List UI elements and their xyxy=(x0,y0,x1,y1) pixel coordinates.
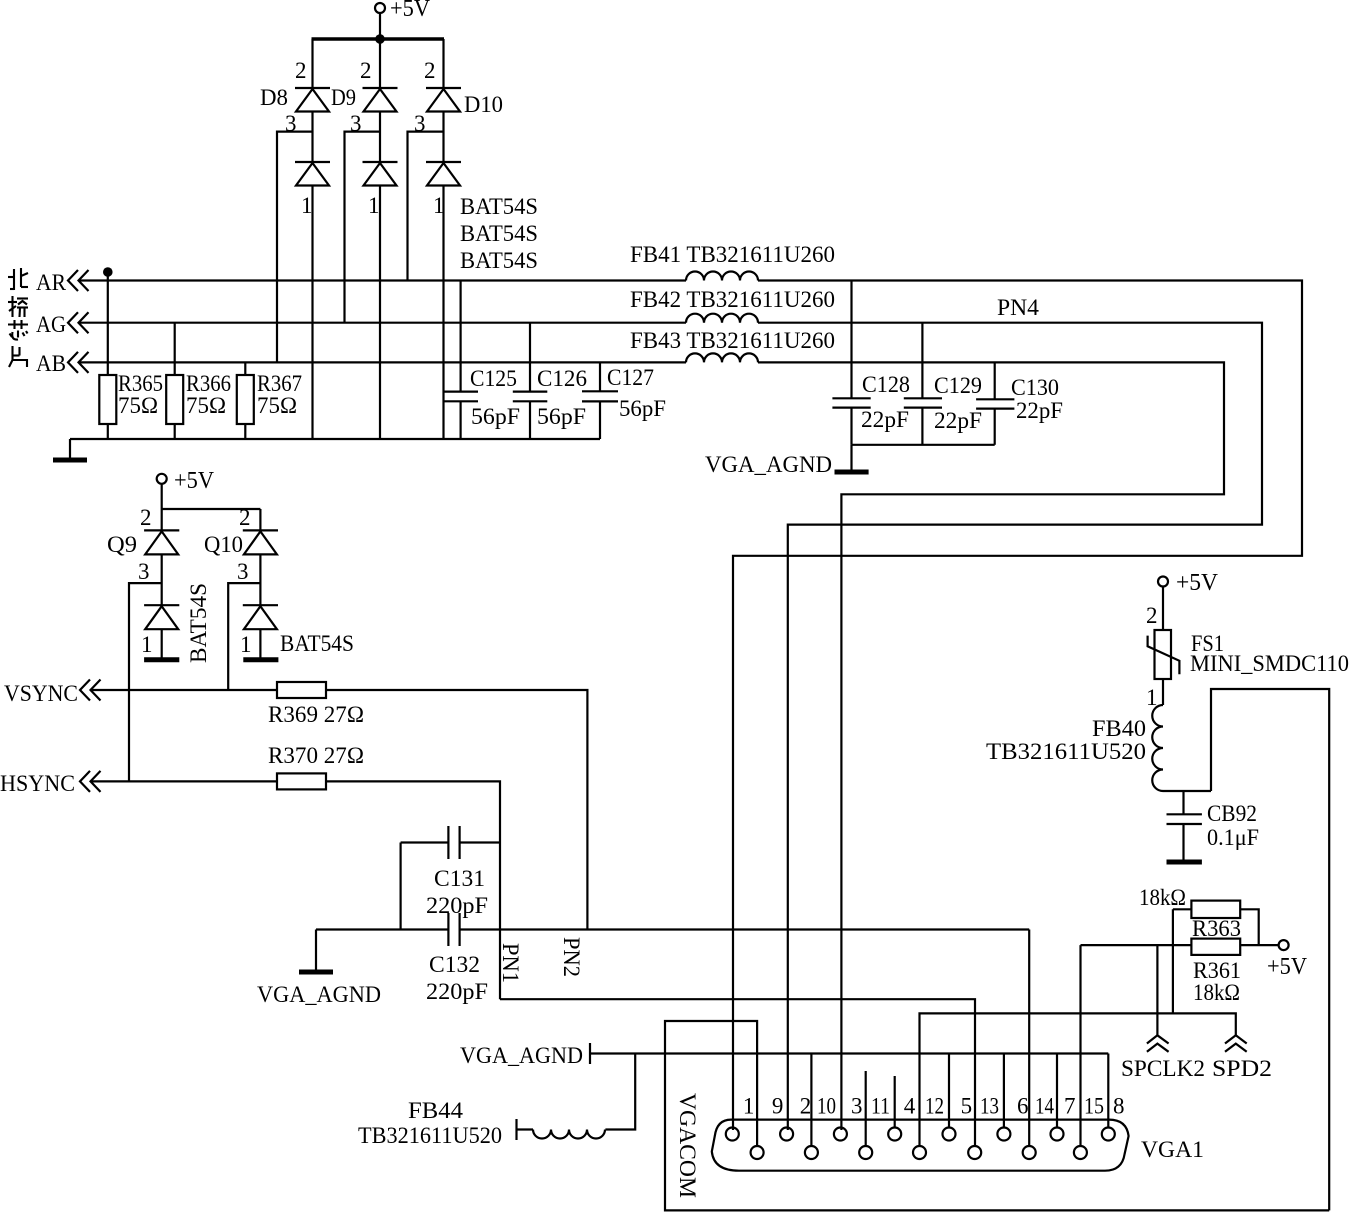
svg-text:56pF: 56pF xyxy=(619,396,666,421)
svg-text:BAT54S: BAT54S xyxy=(460,221,538,246)
svg-text:1: 1 xyxy=(240,632,252,657)
svg-text:PN2: PN2 xyxy=(559,937,584,977)
svg-text:2: 2 xyxy=(295,58,307,83)
svg-text:1: 1 xyxy=(743,1094,755,1119)
svg-text:22pF: 22pF xyxy=(861,407,909,432)
node HSYNC port xyxy=(0,771,101,796)
svg-text:3: 3 xyxy=(237,559,249,584)
svg-text:2: 2 xyxy=(424,58,436,83)
capacitor C131 xyxy=(401,826,500,918)
svg-text:220pF: 220pF xyxy=(426,979,488,1004)
svg-text:+5V: +5V xyxy=(1176,570,1219,596)
svg-text:MINI_SMDC110: MINI_SMDC110 xyxy=(1190,651,1349,676)
svg-text:R370 27Ω: R370 27Ω xyxy=(268,743,364,768)
pin 13 circle xyxy=(968,1146,981,1159)
svg-text:C132: C132 xyxy=(429,952,480,977)
svg-text:BAT54S: BAT54S xyxy=(186,583,211,663)
svg-text:75Ω: 75Ω xyxy=(257,393,297,418)
svg-text:FB41 TB321611U260: FB41 TB321611U260 xyxy=(630,242,835,267)
capacitor C130 xyxy=(976,375,1063,423)
diode D8 (top half, BAT54S) xyxy=(295,88,330,112)
inductor FB44 xyxy=(358,1098,605,1148)
wire pin8 drop (row end) xyxy=(1107,1054,1109,1128)
svg-text:1: 1 xyxy=(301,193,313,218)
wire AG to C129 xyxy=(921,323,923,399)
wire pin6 drop xyxy=(1003,1054,1005,1128)
wire caps bottom row xyxy=(852,444,995,446)
capacitor C132 xyxy=(426,913,488,1004)
svg-text:0.1μF: 0.1μF xyxy=(1207,825,1259,850)
wire FB44 riser xyxy=(605,1054,635,1130)
wire FB40 bottom node xyxy=(1163,790,1211,792)
wire AB to R367 xyxy=(244,362,246,375)
svg-text:220pF: 220pF xyxy=(426,893,488,918)
svg-text:C126: C126 xyxy=(537,366,587,391)
pin 2 circle xyxy=(780,1128,793,1141)
svg-text:HSYNC: HSYNC xyxy=(0,771,75,796)
wire HSYNC to R370 xyxy=(91,780,277,782)
diode D8 (lower half) xyxy=(295,162,330,186)
wire R361 to +5V terminal xyxy=(1240,944,1279,946)
svg-text:SPCLK2: SPCLK2 xyxy=(1121,1056,1205,1081)
resistor R366 xyxy=(166,371,231,424)
wire Q10 pin3 jog to VSYNC xyxy=(228,583,260,690)
svg-text:VGA_AGND: VGA_AGND xyxy=(257,982,381,1007)
inductor FB41 xyxy=(630,242,835,281)
svg-text:FB44: FB44 xyxy=(408,1098,464,1123)
wire D8 pin3 jog xyxy=(277,132,313,363)
wire Q10 mid xyxy=(259,554,261,605)
ground bar CB92 xyxy=(1167,860,1202,865)
node SPD2 port (up arrow) xyxy=(1212,1035,1272,1081)
svg-text:3: 3 xyxy=(138,559,150,584)
power +5V terminal (FS1) xyxy=(1158,570,1219,596)
fuse FS1 MINI_SMDC110 xyxy=(1148,630,1349,679)
wire +5V hook to VGA box xyxy=(1211,689,1329,1210)
capacitor CB92 xyxy=(1167,801,1260,850)
wire D9 mid xyxy=(379,112,381,163)
svg-text:+5V: +5V xyxy=(390,0,431,22)
svg-text:D10: D10 xyxy=(464,92,503,117)
svg-text:Q9: Q9 xyxy=(107,532,137,557)
svg-text:SPD2: SPD2 xyxy=(1212,1056,1272,1081)
svg-text:D8: D8 xyxy=(260,85,288,110)
svg-text:75Ω: 75Ω xyxy=(186,393,226,418)
svg-text:11: 11 xyxy=(871,1094,890,1119)
svg-text:C127: C127 xyxy=(607,365,654,390)
wire AB hook to VGA pin3 xyxy=(758,362,1224,1130)
svg-text:TB321611U520: TB321611U520 xyxy=(986,739,1146,764)
svg-text:1: 1 xyxy=(433,193,445,218)
svg-text:4: 4 xyxy=(904,1094,916,1119)
svg-text:VGACOM: VGACOM xyxy=(675,1093,700,1198)
connector VGA1 D-shell outline xyxy=(712,1120,1129,1171)
svg-text:56pF: 56pF xyxy=(537,404,586,429)
pin 9 circle xyxy=(751,1146,764,1159)
svg-text:3: 3 xyxy=(350,111,362,136)
wire R363 right to +5V net xyxy=(1240,909,1259,945)
svg-text:AB: AB xyxy=(36,351,66,376)
node VSYNC port xyxy=(4,680,101,707)
svg-text:56pF: 56pF xyxy=(471,404,520,429)
wire AR hook to VGA pin1 xyxy=(733,281,1302,1131)
pin 15 circle xyxy=(1074,1146,1087,1159)
wire Q10 bottom xyxy=(259,629,261,658)
inductor FB40 xyxy=(986,705,1163,791)
wire AR line (left of FB41) xyxy=(79,279,686,281)
svg-text:15: 15 xyxy=(1084,1094,1104,1119)
node AR port xyxy=(36,270,89,295)
diode Q10 (lower half) xyxy=(243,605,278,629)
wire SPCLK2/pin15 row xyxy=(1081,944,1192,946)
wire pin4 stub xyxy=(894,1076,896,1128)
svg-text:1: 1 xyxy=(1146,685,1158,710)
ground VGA_AGND (caps) xyxy=(705,445,869,477)
diode Q9 (lower half) xyxy=(144,605,179,629)
svg-text:1: 1 xyxy=(141,632,153,657)
wire C128 to bottom row xyxy=(850,408,852,445)
pin 4 circle xyxy=(888,1128,901,1141)
svg-text:C125: C125 xyxy=(470,366,517,391)
svg-text:2: 2 xyxy=(800,1094,812,1119)
wire D8 column top xyxy=(311,39,313,88)
resistor R370 xyxy=(268,743,364,789)
svg-text:8: 8 xyxy=(1113,1094,1125,1119)
pin 1 circle xyxy=(726,1128,739,1141)
pin 8 circle xyxy=(1102,1128,1115,1141)
wire D9 column top xyxy=(379,39,381,88)
svg-text:AR: AR xyxy=(36,270,67,295)
wire top bus xyxy=(312,37,445,40)
resistor R361 xyxy=(1191,939,1241,1005)
diode Q9 (top half, BAT54S) xyxy=(144,530,179,554)
svg-text:FB42 TB321611U260: FB42 TB321611U260 xyxy=(630,287,835,312)
wire AB to C127 xyxy=(599,362,601,391)
pin 6 circle xyxy=(997,1128,1010,1141)
svg-text:1: 1 xyxy=(368,193,380,218)
pin 12 circle xyxy=(913,1146,926,1159)
wire C127 to rail end xyxy=(599,401,601,439)
pin 5 circle xyxy=(943,1128,956,1141)
capacitor C128 xyxy=(832,372,910,432)
wire AR to R365 xyxy=(107,274,109,375)
diode D10 (top half, BAT54S) xyxy=(426,88,461,112)
svg-text:C131: C131 xyxy=(434,866,485,891)
pin 10 circle xyxy=(805,1146,818,1159)
svg-text:18kΩ: 18kΩ xyxy=(1139,885,1186,910)
svg-text:10: 10 xyxy=(817,1094,836,1119)
wire AG hook to VGA pin2 xyxy=(758,323,1262,1130)
wire AG to C126 xyxy=(529,323,531,392)
wire SPCLK2 drop xyxy=(1156,945,1158,1036)
terminal bar Q10 pin1 xyxy=(243,657,278,662)
inductor FB43 xyxy=(630,328,835,362)
power +5V terminal (mid) xyxy=(157,468,215,494)
wire FS1 to FB40 xyxy=(1162,679,1164,705)
svg-text:Q10: Q10 xyxy=(204,532,243,557)
svg-text:22pF: 22pF xyxy=(1016,398,1063,423)
svg-text:22pF: 22pF xyxy=(934,408,982,433)
wire +5V to bus xyxy=(379,13,381,39)
wire C131 left down to AGND row xyxy=(400,843,402,930)
wire Q10 column top xyxy=(259,509,261,530)
wire pin11 stub xyxy=(865,1071,867,1146)
ground VGA_AGND (C132) xyxy=(257,930,381,1008)
svg-text:BAT54S: BAT54S xyxy=(460,248,538,273)
svg-text:6: 6 xyxy=(1017,1094,1029,1119)
wire +5V down to Q9 xyxy=(161,484,163,531)
resistor R367 xyxy=(237,371,302,424)
svg-text:R363: R363 xyxy=(1192,916,1241,941)
svg-text:14: 14 xyxy=(1035,1094,1054,1119)
wire D9 pin3 jog xyxy=(345,132,381,323)
pin 3 circle xyxy=(834,1128,847,1141)
node SPCLK2 port (up arrow) xyxy=(1121,1035,1205,1081)
svg-text:VGA_AGND: VGA_AGND xyxy=(460,1043,583,1068)
wire Q9 pin3 jog to HSYNC xyxy=(129,583,162,781)
wire R366 to rail xyxy=(174,424,176,439)
wire AG line (left of FB42) xyxy=(79,322,686,324)
svg-text:5: 5 xyxy=(961,1094,973,1119)
wire R363 left leg to SPD2 row xyxy=(1172,909,1174,1013)
inductor FB42 xyxy=(630,287,835,323)
svg-text:PN4: PN4 xyxy=(997,295,1040,320)
wire D8 mid xyxy=(311,112,313,163)
wire D8 column to ground rail xyxy=(311,186,313,440)
wire pin10 drop xyxy=(810,1054,812,1147)
svg-text:TB321611U520: TB321611U520 xyxy=(358,1123,502,1148)
svg-text:+5V: +5V xyxy=(1267,954,1308,980)
resistor R363 xyxy=(1191,901,1241,941)
capacitor C129 xyxy=(904,373,982,433)
capacitor C125 xyxy=(444,366,521,429)
svg-text:2: 2 xyxy=(1146,603,1158,628)
svg-text:C128: C128 xyxy=(862,372,910,397)
svg-text:VGA_AGND: VGA_AGND xyxy=(705,452,832,477)
wire CB92 to ground xyxy=(1182,824,1184,860)
svg-text:+5V: +5V xyxy=(174,468,215,494)
svg-text:VGA1: VGA1 xyxy=(1141,1137,1204,1162)
wire pin15 drop xyxy=(1079,945,1081,1146)
pin 7 circle xyxy=(1051,1128,1064,1141)
wire C126 to rail xyxy=(529,401,531,439)
wire AG to R366 xyxy=(174,323,176,375)
wire pin7 drop xyxy=(1056,1054,1058,1128)
node AG port xyxy=(36,312,89,337)
capacitor C127 xyxy=(582,365,666,421)
wire R369 to PN2 xyxy=(326,690,587,930)
wire R365 to rail xyxy=(107,424,109,439)
wire AB to C130 xyxy=(994,362,996,399)
diode D9 (lower half) xyxy=(363,162,398,186)
node label: chinese (north bridge chip) xyxy=(8,268,28,367)
wire C130 to bottom row xyxy=(994,409,996,445)
wire AB line (left of FB43) xyxy=(79,361,686,363)
wire SPD2 row xyxy=(920,1013,1236,1146)
svg-text:3: 3 xyxy=(285,111,297,136)
svg-text:12: 12 xyxy=(925,1094,944,1119)
wire R370 to PN1 xyxy=(326,781,500,999)
svg-text:VSYNC: VSYNC xyxy=(4,681,78,706)
node junction on bus xyxy=(375,34,385,44)
svg-text:FB40: FB40 xyxy=(1092,716,1146,741)
svg-text:75Ω: 75Ω xyxy=(118,393,158,418)
pin 14 circle xyxy=(1023,1146,1036,1159)
diode D10 (lower half) xyxy=(426,162,461,186)
ground symbol xyxy=(53,439,87,460)
diode Q10 (top half, BAT54S) xyxy=(243,530,278,554)
power +5V terminal (top) xyxy=(375,0,431,22)
wire AR to C125 xyxy=(460,281,462,392)
svg-text:2: 2 xyxy=(140,505,152,530)
wire C129 to bottom row xyxy=(921,408,923,445)
svg-text:2: 2 xyxy=(360,58,372,83)
wire D10 mid xyxy=(442,112,444,163)
wire VGA_AGND row xyxy=(590,1052,1108,1054)
terminal bar Q9 pin1 xyxy=(144,657,179,662)
svg-text:PN1: PN1 xyxy=(498,943,523,983)
node VGA_AGND tick (row) xyxy=(460,1043,590,1068)
svg-text:7: 7 xyxy=(1064,1094,1076,1119)
svg-text:FB43 TB321611U260: FB43 TB321611U260 xyxy=(630,328,835,353)
svg-text:9: 9 xyxy=(772,1094,784,1119)
wire PN1 row to pin13 xyxy=(500,999,975,1146)
wire node to CB92 xyxy=(1182,791,1184,814)
wire PN2 row (C132 right to pin14 drop) xyxy=(460,928,1030,930)
wire D10 column to ground rail xyxy=(442,186,444,440)
wire R363 left xyxy=(1173,908,1192,910)
svg-text:13: 13 xyxy=(980,1094,999,1119)
wire +5V to FS1 xyxy=(1162,587,1164,631)
wire ground rail xyxy=(70,438,600,440)
svg-text:D9: D9 xyxy=(331,85,356,110)
wire Q9 mid xyxy=(161,554,163,605)
svg-text:BAT54S: BAT54S xyxy=(460,194,538,219)
wire AR to C128 xyxy=(850,281,852,399)
svg-text:3: 3 xyxy=(851,1094,863,1119)
wire R367 to rail xyxy=(244,424,246,439)
svg-text:18kΩ: 18kΩ xyxy=(1193,980,1240,1005)
svg-text:C129: C129 xyxy=(934,373,982,398)
svg-text:BAT54S: BAT54S xyxy=(280,631,354,656)
diode D9 (top half, BAT54S) xyxy=(363,88,398,112)
wire D10 pin3 jog xyxy=(408,132,444,281)
svg-text:CB92: CB92 xyxy=(1207,801,1257,826)
svg-text:C130: C130 xyxy=(1011,375,1059,400)
capacitor C126 xyxy=(513,366,587,429)
svg-text:3: 3 xyxy=(414,111,426,136)
wire Q9-Q10 top connector xyxy=(162,508,261,510)
svg-text:AG: AG xyxy=(36,312,66,337)
svg-text:2: 2 xyxy=(239,505,251,530)
resistor R365 xyxy=(99,371,163,424)
pin 11 circle xyxy=(859,1146,872,1159)
wire C125 to rail xyxy=(460,401,462,439)
wire VGACOM box (+5V route to pin 9) xyxy=(665,1021,1329,1210)
junction dot above AR line xyxy=(103,267,113,277)
wire D9 column to ground rail xyxy=(379,186,381,440)
wire PN2 drop to pin14 xyxy=(1028,930,1030,1147)
wire pin5 drop xyxy=(948,1054,950,1128)
wire Q9 bottom xyxy=(161,629,163,658)
power +5V terminal (R361) xyxy=(1267,940,1308,980)
wire VSYNC to R369 xyxy=(91,689,277,691)
wire AGND row to C132 xyxy=(316,928,448,930)
resistor R369 xyxy=(268,682,364,727)
wire D10 column top xyxy=(442,39,444,88)
node AB port xyxy=(36,351,89,376)
svg-text:R369 27Ω: R369 27Ω xyxy=(268,702,364,727)
